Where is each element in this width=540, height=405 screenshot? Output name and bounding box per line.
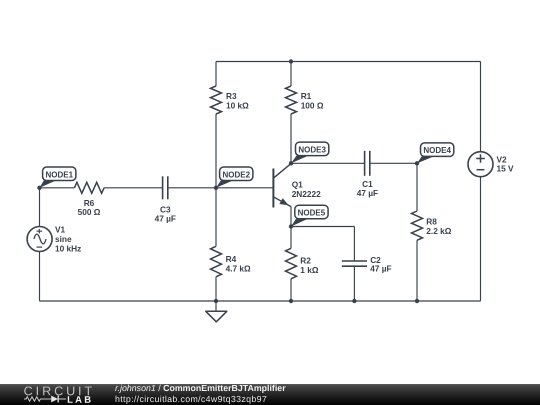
svg-text:R3: R3	[226, 91, 237, 101]
wire: V2 top lead	[480, 62, 482, 152]
junction: NODE2	[214, 186, 218, 190]
svg-text:500 Ω: 500 Ω	[78, 207, 101, 217]
wire: C3 to NODE2	[168, 187, 216, 189]
junction: NODE1	[37, 186, 41, 190]
svg-text:NODE3: NODE3	[298, 145, 326, 154]
wire: NODE1 to R6	[40, 187, 75, 189]
resistor R4	[211, 246, 222, 276]
wire: NODE2 down to R4	[215, 188, 217, 247]
resistor R2	[286, 248, 297, 278]
wire: C1 to NODE4	[370, 162, 417, 164]
wire: NODE4 down to R8	[416, 163, 418, 211]
node NODE5	[291, 205, 328, 226]
wire: R3 top lead	[215, 62, 217, 87]
resistor R1	[286, 86, 297, 114]
voltage source V1	[27, 227, 52, 252]
capacitor C2	[342, 261, 367, 266]
junction: R2 / bottom rail	[289, 299, 293, 303]
svg-text:10 kHz: 10 kHz	[55, 244, 81, 254]
resistor R8	[412, 211, 423, 240]
svg-text:R2: R2	[300, 255, 311, 265]
wire: R6 to C3	[104, 187, 163, 189]
resistor R3	[211, 86, 222, 114]
wire: C2 bottom lead	[353, 266, 355, 301]
svg-text:NODE4: NODE4	[423, 146, 451, 155]
wire: Q1 emitter to NODE5	[290, 207, 292, 227]
wire: V2 bottom lead	[480, 177, 482, 301]
svg-text:R4: R4	[226, 254, 237, 264]
svg-text:NODE1: NODE1	[45, 170, 73, 179]
svg-text:R1: R1	[301, 91, 312, 101]
wire: R2 bottom lead	[290, 279, 292, 301]
footer credit line	[114, 383, 285, 393]
wire: ground stem	[215, 301, 217, 311]
svg-text:47 µF: 47 µF	[357, 188, 378, 198]
svg-text:4.7 kΩ: 4.7 kΩ	[226, 264, 251, 274]
ground	[206, 311, 227, 322]
wire: V1 bottom lead	[39, 252, 41, 302]
wire: R8 bottom lead	[416, 240, 418, 301]
svg-text:100 Ω: 100 Ω	[301, 101, 324, 111]
node NODE3	[291, 142, 329, 163]
svg-text:10 kΩ: 10 kΩ	[226, 101, 249, 111]
svg-text:sine: sine	[55, 234, 72, 244]
junction: ground / bottom rail	[214, 299, 218, 303]
svg-text:1 kΩ: 1 kΩ	[300, 265, 319, 275]
svg-text:47 µF: 47 µF	[370, 264, 391, 274]
svg-text:15 V: 15 V	[497, 164, 515, 174]
svg-text:R8: R8	[426, 216, 437, 226]
wire: V1 top lead	[39, 188, 41, 227]
node NODE2	[216, 167, 253, 188]
wire: R1 top lead	[290, 62, 292, 87]
wire: NODE3 to C1	[291, 162, 364, 164]
svg-text:47 µF: 47 µF	[155, 213, 176, 223]
svg-text:V1: V1	[55, 224, 66, 234]
svg-text:LAB: LAB	[67, 395, 93, 405]
node NODE1	[40, 167, 76, 188]
node NODE4	[417, 143, 454, 164]
wire: NODE5 down to R2	[290, 227, 292, 249]
wire: NODE5 to C2 branch	[291, 226, 354, 228]
wire: C2 top lead	[353, 227, 355, 262]
junction: top rail / R1	[289, 59, 293, 63]
resistor R6	[74, 182, 104, 193]
junction: NODE5	[289, 224, 293, 228]
wire: R3 bottom to NODE2	[215, 114, 217, 188]
footer url line	[114, 394, 266, 404]
junction: NODE3	[289, 161, 293, 165]
wire: R1 bottom to NODE3	[290, 114, 292, 163]
wire: bottom rail	[40, 300, 481, 302]
voltage source V2	[468, 152, 493, 177]
junction: NODE4	[415, 161, 419, 165]
logo diode	[51, 396, 58, 403]
svg-text:NODE2: NODE2	[222, 170, 250, 179]
wire: NODE2 to Q1 base	[216, 187, 273, 189]
svg-text:NODE5: NODE5	[298, 209, 326, 218]
capacitor C1	[365, 151, 370, 176]
wire: R4 bottom lead	[215, 277, 217, 301]
svg-text:2N2222: 2N2222	[292, 189, 321, 199]
junction: R8 / bottom rail	[415, 299, 419, 303]
wire: top supply rail	[216, 61, 481, 63]
junction: C2 / bottom rail	[352, 299, 356, 303]
capacitor C3	[163, 176, 168, 199]
transistor Q1	[273, 164, 291, 208]
svg-text:2.2 kΩ: 2.2 kΩ	[426, 226, 451, 236]
logo resistor zigzag	[24, 397, 51, 401]
